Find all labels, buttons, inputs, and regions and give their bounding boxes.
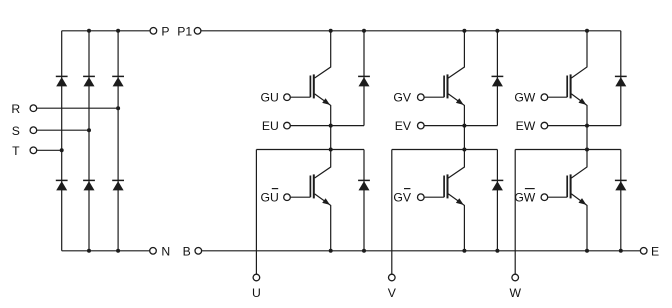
junction top rail leg 2: [87, 29, 91, 33]
junction top rail U collector: [329, 29, 333, 33]
IGBT upper W (QW1): [548, 31, 587, 126]
wire EU emitter lead: [290, 125, 364, 127]
junction bottom rail leg 3: [116, 249, 120, 253]
overbar of GV bar label: [404, 188, 410, 190]
svg-text:B: B: [183, 245, 191, 259]
junction bottom rail U emitter: [329, 249, 333, 253]
terminal N: [150, 248, 157, 255]
svg-text:U: U: [252, 286, 261, 300]
terminal W output: [512, 274, 519, 281]
svg-text:T: T: [12, 144, 20, 158]
svg-text:R: R: [11, 102, 20, 116]
junction top rail V collector: [462, 29, 466, 33]
junction EU node: [329, 124, 333, 128]
junction EW node: [585, 124, 589, 128]
wire lower freewheel diode branch U: [363, 150, 365, 251]
junction bottom rail U diode: [362, 249, 366, 253]
wire U phase node line: [256, 149, 364, 151]
svg-text:GV: GV: [393, 191, 411, 205]
terminal B: [195, 248, 202, 255]
terminal GV: [418, 94, 425, 101]
terminal EW: [541, 122, 548, 129]
wire V midpoint link: [463, 126, 465, 150]
wire inverter top rail P1 bus: [201, 30, 621, 32]
diode lower freewheel W: [615, 180, 627, 190]
IGBT lower U (QU2): [290, 150, 330, 251]
wire rectifier top rail P: [62, 30, 150, 32]
wire W output stem: [514, 150, 516, 275]
wire rectifier leg 3 vertical: [117, 31, 119, 251]
wire U output stem: [255, 150, 257, 275]
svg-text:N: N: [161, 245, 170, 259]
diode rectifier upper leg 3: [112, 76, 124, 86]
wire lower freewheel diode branch V: [496, 150, 498, 251]
diode upper freewheel W: [615, 76, 627, 86]
svg-text:GW: GW: [514, 91, 535, 105]
junction top rail U diode: [362, 29, 366, 33]
junction bottom rail V diode: [495, 249, 499, 253]
svg-text:EV: EV: [395, 119, 412, 133]
junction node T: [60, 148, 64, 152]
IGBT lower V (QV2): [424, 150, 464, 251]
diode rectifier lower leg 3: [112, 180, 124, 190]
junction bottom rail W diode: [619, 249, 623, 253]
terminal EU: [284, 122, 291, 129]
wire rectifier leg 1 vertical: [61, 31, 63, 251]
terminal S: [30, 127, 37, 134]
junction top rail leg 3: [116, 29, 120, 33]
svg-text:EU: EU: [262, 119, 279, 133]
svg-text:E: E: [651, 245, 659, 259]
wire upper freewheel diode branch W: [620, 31, 622, 126]
wire rectifier leg 2 vertical: [88, 31, 90, 251]
terminal GU: [284, 94, 291, 101]
svg-text:GV: GV: [393, 91, 411, 105]
terminal U output: [253, 274, 260, 281]
junction bottom rail W emitter: [585, 249, 589, 253]
terminal GW bar (lower gate): [541, 194, 548, 201]
wire rectifier bottom rail N: [62, 250, 150, 252]
wire EW emitter lead: [548, 125, 621, 127]
wire inverter bottom rail N bus: [202, 250, 641, 252]
junction node S: [87, 128, 91, 132]
wire upper freewheel diode branch U: [363, 31, 365, 126]
junction EV node: [462, 124, 466, 128]
overbar of GW bar label: [525, 188, 535, 190]
svg-text:V: V: [388, 286, 397, 300]
junction bottom rail leg 2: [87, 249, 91, 253]
terminal T: [30, 147, 37, 154]
wire V phase node line: [392, 149, 498, 151]
junction top rail W collector: [585, 29, 589, 33]
svg-text:P1: P1: [177, 25, 192, 39]
svg-text:P: P: [161, 25, 169, 39]
diode rectifier lower leg 1: [56, 180, 68, 190]
junction U phase node: [329, 148, 333, 152]
wire W phase node line: [515, 149, 621, 151]
svg-text:S: S: [12, 124, 20, 138]
wire T to leg: [37, 149, 62, 151]
wire U midpoint link: [330, 126, 332, 150]
junction W phase node: [585, 148, 589, 152]
svg-text:GU: GU: [261, 191, 279, 205]
terminal GW: [541, 94, 548, 101]
overbar of GU bar label: [272, 188, 278, 190]
junction bottom rail V emitter: [462, 249, 466, 253]
diode lower freewheel V: [492, 180, 504, 190]
svg-text:EW: EW: [516, 119, 536, 133]
diode upper freewheel U: [358, 76, 370, 86]
terminal E: [640, 248, 647, 255]
junction V phase node: [462, 148, 466, 152]
terminal P: [150, 28, 157, 35]
wire lower freewheel diode branch W: [620, 150, 622, 251]
terminal EV: [418, 122, 425, 129]
wire V output stem: [391, 150, 393, 275]
wire W midpoint link: [586, 126, 588, 150]
wire S to leg: [37, 129, 89, 131]
terminal V output: [389, 274, 396, 281]
svg-text:GW: GW: [514, 191, 535, 205]
IGBT upper U (QU1): [290, 31, 330, 126]
diode rectifier upper leg 2: [83, 76, 95, 86]
wire upper freewheel diode branch V: [496, 31, 498, 126]
IGBT upper V (QV1): [424, 31, 464, 126]
terminal P1: [194, 28, 201, 35]
svg-text:W: W: [509, 286, 521, 300]
IGBT lower W (QW2): [548, 150, 587, 251]
wire R to leg: [37, 107, 118, 109]
junction node R: [116, 106, 120, 110]
diode rectifier lower leg 2: [83, 180, 95, 190]
terminal R: [30, 105, 37, 112]
terminal GU bar (lower gate): [284, 194, 291, 201]
svg-text:GU: GU: [261, 91, 279, 105]
diode rectifier upper leg 1: [56, 76, 68, 86]
wire EV emitter lead: [424, 125, 497, 127]
terminal GV bar (lower gate): [418, 194, 425, 201]
diode upper freewheel V: [492, 76, 504, 86]
junction top rail V diode: [495, 29, 499, 33]
diode lower freewheel U: [358, 180, 370, 190]
